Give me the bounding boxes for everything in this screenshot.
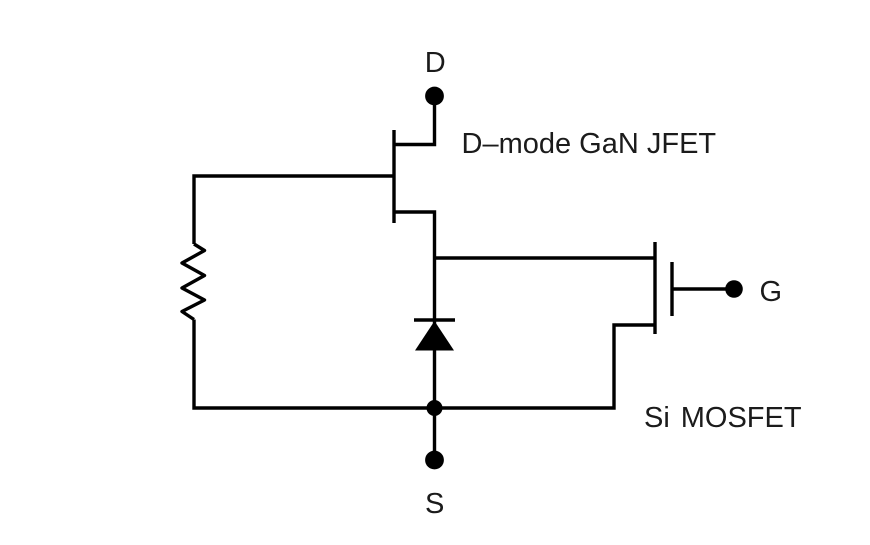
- svg-text:D–mode GaN JFET: D–mode GaN JFET: [462, 128, 717, 160]
- svg-text:G: G: [760, 276, 783, 308]
- svg-text:Si MOSFET: Si MOSFET: [644, 402, 802, 434]
- svg-text:D: D: [425, 47, 446, 79]
- svg-text:S: S: [425, 488, 444, 520]
